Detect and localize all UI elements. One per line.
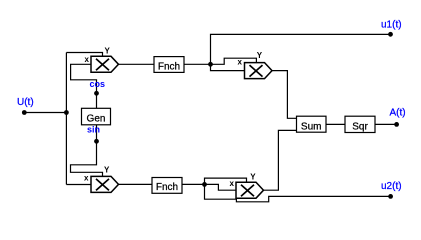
svg-text:Y: Y — [105, 47, 111, 56]
wire U bus bottom to M3 x-input — [66, 184, 91, 186]
wire cos output — [71, 64, 97, 108]
wire U bus vertical — [65, 53, 67, 185]
svg-text:Fnch: Fnch — [158, 61, 180, 72]
generator Gen — [82, 108, 111, 125]
svg-text:Y: Y — [250, 173, 256, 182]
svg-text:Y: Y — [104, 165, 110, 174]
junction top — [208, 62, 213, 67]
block Fnch2 — [152, 178, 182, 194]
svg-text:x: x — [84, 173, 89, 182]
wire Sqr out — [375, 123, 397, 125]
node cos — [94, 91, 99, 96]
terminal U(t) — [22, 110, 27, 115]
wire M3 out — [119, 183, 153, 185]
wire M4 out to Sum — [264, 130, 297, 190]
node sin — [94, 139, 99, 144]
svg-text:Gen: Gen — [87, 114, 106, 125]
wire to u2(t) — [205, 184, 391, 201]
junction U bus — [64, 110, 69, 115]
block Sqr — [345, 116, 375, 132]
wire M2 x-input — [211, 64, 245, 70]
wire M4 y-input loop — [205, 178, 247, 184]
block Sum — [297, 116, 327, 132]
svg-text:Sum: Sum — [301, 121, 322, 132]
wire M1 out — [119, 63, 155, 65]
wire sin output — [71, 125, 103, 177]
wire M2 y-input loop — [211, 58, 257, 64]
wire U(t) stub — [24, 112, 66, 114]
wire Sum to Sqr — [326, 123, 345, 125]
svg-text:Sqr: Sqr — [352, 122, 368, 133]
terminal A(t) — [394, 122, 399, 127]
wire Fnch1 out — [184, 63, 211, 65]
svg-text:Fnch: Fnch — [156, 182, 178, 193]
svg-text:x: x — [85, 55, 90, 64]
multiplier M4 — [236, 182, 264, 198]
terminal u1(t) — [388, 32, 393, 37]
svg-text:u1(t): u1(t) — [381, 20, 402, 31]
svg-text:x: x — [230, 179, 235, 188]
terminal u2(t) — [388, 194, 393, 199]
block Fnch1 — [154, 57, 184, 73]
svg-text:x: x — [238, 58, 243, 67]
svg-text:sin: sin — [87, 124, 100, 134]
svg-text:Y: Y — [257, 51, 263, 60]
multiplier M3 — [91, 176, 119, 192]
svg-text:U(t): U(t) — [17, 97, 34, 108]
svg-text:cos: cos — [90, 79, 106, 89]
svg-text:A(t): A(t) — [390, 108, 406, 119]
wire to u1(t) — [211, 34, 391, 64]
wire Fnch2 out — [182, 183, 205, 185]
multiplier M2 — [245, 63, 273, 79]
wire M4 x-input — [205, 184, 237, 190]
multiplier M1 — [91, 56, 119, 72]
wire M2 out to Sum — [272, 71, 297, 119]
wire U bus top to M1 y-input — [66, 53, 102, 57]
junction bottom — [202, 182, 207, 187]
svg-text:u2(t): u2(t) — [381, 181, 402, 192]
